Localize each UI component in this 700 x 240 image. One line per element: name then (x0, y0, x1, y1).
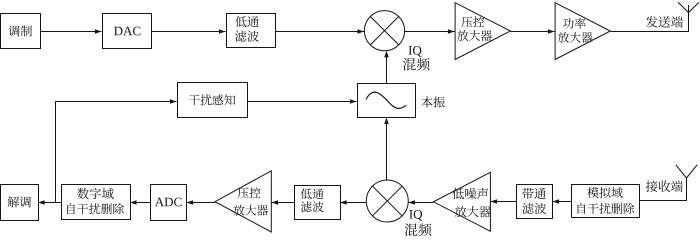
amplifier: low-noise amplifier (低噪声放大器, points left) (434, 172, 491, 231)
wire: LO to TX mixer (arrow up into mixer) (384, 51, 389, 83)
label: IQ 混频 (RX mixer) (405, 210, 432, 236)
label: IQ 混频 (TX mixer) (403, 46, 430, 71)
block: band-pass filter (带通滤波) (517, 185, 553, 219)
wire: interference sensing to local oscillator (247, 99, 357, 104)
wire: band-pass filter to LNA (491, 199, 517, 204)
wire: TX LPF to TX mixer (275, 29, 364, 34)
block: modulator (调制) (1, 14, 41, 49)
label: 发送端 (transmit port) (646, 16, 683, 28)
block: RX low-pass filter (低通滤波) (295, 186, 341, 220)
antenna: receive antenna (676, 165, 697, 178)
block: ADC (151, 185, 187, 221)
wire: LNA to RX mixer (408, 200, 433, 205)
block: DAC (103, 14, 152, 49)
wire: RX LPF to RX VGA (272, 200, 295, 205)
block: interference sensing (干扰感知) (178, 83, 248, 118)
block: digital-domain self-interference canceller (数字域自干扰删除) (62, 185, 131, 220)
wire: RX antenna to analog canceller (640, 178, 687, 201)
oscillator: local oscillator block with sine wave (358, 84, 416, 118)
label: 接收端 (receive port) (646, 180, 683, 192)
wire: modulator to DAC (40, 29, 102, 34)
block: analog-domain self-interference canceller (模拟域自干扰删除) (572, 185, 640, 218)
wire: analog canceller to band-pass filter (553, 199, 572, 204)
wire: VGA to power amp (510, 29, 554, 34)
wire: digital canceller to demodulator (junction with feedback tap at x=55) (38, 200, 61, 205)
wire: TX mixer to VGA (405, 29, 455, 34)
amplifier: TX variable-gain amp (压控放大器) (455, 3, 510, 60)
wire: RX mixer to RX LPF (340, 200, 366, 205)
wire: DAC to TX low-pass filter (151, 29, 226, 34)
wire: RX mixer to LO (arrow up into LO) (384, 118, 389, 181)
wire: RX VGA to ADC (187, 200, 216, 205)
wire: power amp to TX antenna (610, 5, 688, 32)
wire: ADC to digital canceller (130, 200, 150, 205)
wire: feedback tap to interference sensing (55, 99, 177, 202)
antenna: transmit antenna (678, 2, 699, 12)
label: 本振 (local oscillator) (421, 96, 445, 107)
amplifier: power amplifier (功率放大器) (555, 3, 610, 60)
block: demodulator (解调) (1, 185, 39, 221)
mixer: TX IQ up-converter (circle with X) (364, 11, 404, 51)
block: TX low-pass filter (低通滤波) (227, 14, 276, 48)
mixer: RX IQ down-converter (circle with X) (366, 180, 408, 222)
amplifier: RX variable-gain amp (压控放大器, points left) (215, 171, 271, 232)
